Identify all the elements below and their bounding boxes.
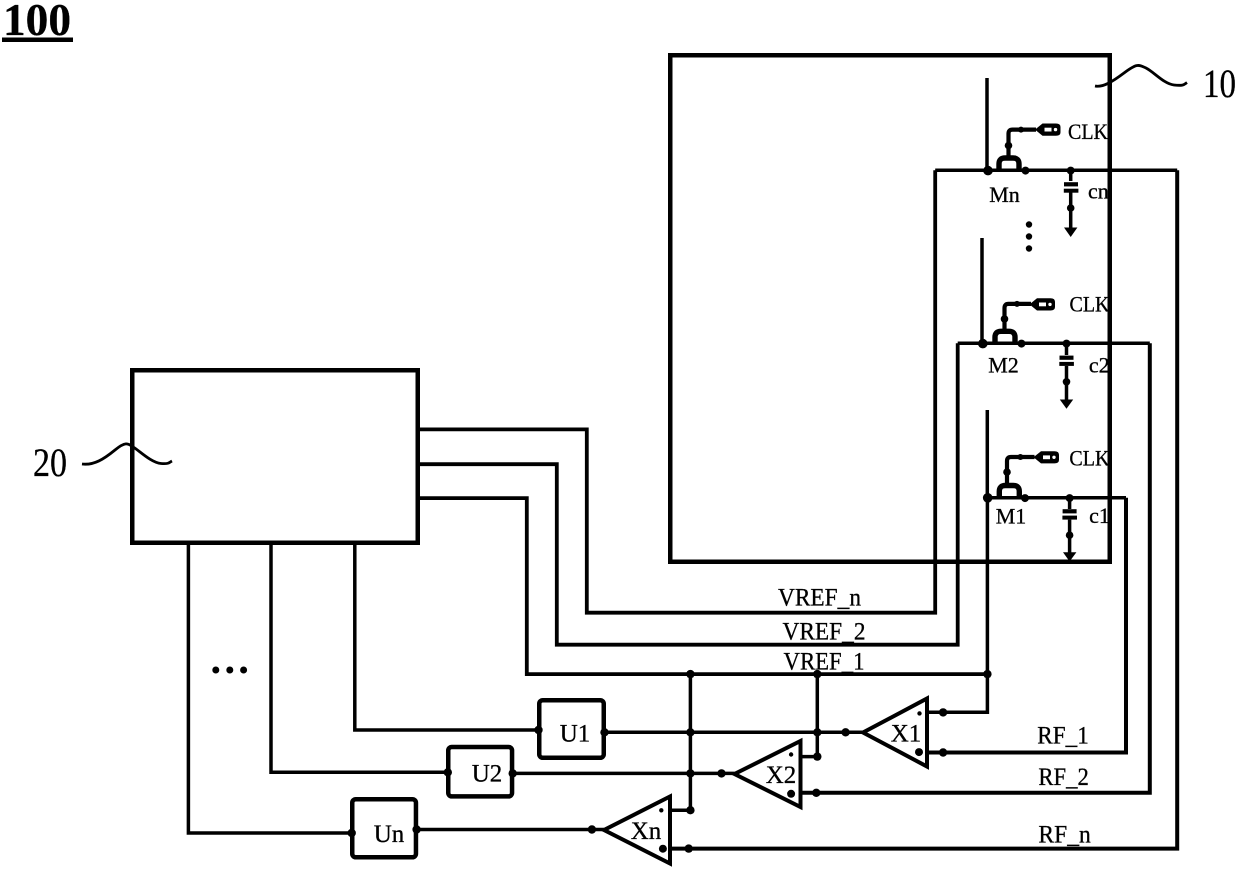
node junction VREF_1 x=690 [686,670,694,678]
svg-text:RF_2: RF_2 [1038,764,1088,791]
cell 1 rail [987,496,1126,500]
wire block20 to Un input [188,545,351,833]
svg-text:CLK: CLK [1070,292,1110,317]
svg-text:VREF_2: VREF_2 [783,618,866,645]
node VREF_1 / M1 left edge junction [983,670,991,678]
buffer U2 [448,747,512,796]
amplifier X1 [863,699,927,767]
node crossing dot x690 on U1-X1 wire [686,728,694,736]
CLK terminal tag (cell n) [1035,124,1061,136]
node junction VREF_1 x=817 [813,670,821,678]
node Un output dot [412,825,420,833]
node crossing dot x817 on U1-X1 wire [813,728,821,736]
svg-text:RF_1: RF_1 [1037,723,1089,750]
node dot left of Xn apex [588,825,596,833]
node U2 input dot [444,768,452,776]
transistor Mn [983,78,1036,207]
amplifier Xn [604,797,670,864]
node corner X2 top input [813,752,821,760]
node X1 bottom input terminal [939,748,947,756]
wire Un output to Xn apex [417,828,604,832]
svg-text:X2: X2 [766,762,797,789]
svg-text:c2: c2 [1089,353,1110,378]
svg-text:U1: U1 [560,721,591,748]
CLK terminal tag (cell 2) [1030,298,1056,310]
svg-text:Mn: Mn [989,182,1020,207]
svg-text:U2: U2 [472,760,503,787]
node X2 bottom input terminal [812,789,820,797]
wire VREF_1 from block 20 to junction (cell 1 left edge) [420,498,987,674]
svg-text:20: 20 [33,440,67,485]
node U1 output dot [600,728,608,736]
wire block20 to U2 input [271,545,447,772]
wire block20 to U1 input [355,545,538,730]
svg-text:VREF_1: VREF_1 [784,649,865,676]
node dot left of X1 apex [841,728,849,736]
buffer U1 [539,700,604,758]
node Xn bottom input terminal [685,844,693,852]
horizontal ellipsis below block 20 [212,667,247,674]
node X1 top input terminal [939,708,947,716]
wire VREF_n from block 20 to block 10 (cell n left edge) [420,170,935,612]
leader squiggle for 10 [1095,65,1187,86]
node U2 output dot [509,769,517,777]
wire RF_2: M2 rect right edge down to X2 bottom input [801,343,1150,793]
amplifier X2 [735,741,801,807]
wire U2 output to X2 apex [513,772,735,776]
svg-text:Xn: Xn [631,818,662,845]
node corner Xn top input [686,806,694,814]
svg-text:10: 10 [1203,61,1236,106]
wire: vertical feed from VREF_1 to X2 top input [801,674,818,757]
vertical ellipsis between cell n and cell 2 [1026,221,1032,251]
wire: vertical feed from VREF_1 to Xn top input [670,674,690,810]
CLK terminal tag (cell 1) [1034,451,1060,463]
figure label 100 [2,0,73,45]
wire U1 output to X1 apex [605,731,864,735]
node Un input dot [348,829,356,837]
svg-text:RF_n: RF_n [1038,822,1091,849]
wire VREF_2 from block 20 to block 10 (cell 2 left edge) [420,343,958,644]
node crossing dot x690 on U2-X2 wire [686,769,694,777]
svg-text:M1: M1 [996,504,1027,529]
svg-text:CLK: CLK [1068,119,1108,144]
node U1 input dot [534,726,542,734]
svg-text:VREF_n: VREF_n [778,585,861,612]
capacitor c1 [1062,494,1109,561]
svg-text:c1: c1 [1089,503,1110,528]
svg-text:CLK: CLK [1069,446,1109,471]
transistor M1 [983,410,1035,529]
cell 2 rail [958,342,1150,346]
svg-text:M2: M2 [988,353,1019,378]
cell n rail [935,169,1177,173]
buffer Un [352,799,416,857]
leader squiggle for 20 [82,444,172,464]
capacitor c2 [1059,340,1109,409]
wire RF_1: M1 rect right edge down to X1 bottom input [927,498,1126,753]
wire RF_n: Mn rect right edge down to Xn bottom input [670,170,1177,848]
transistor M2 [978,238,1031,378]
svg-text:Un: Un [374,821,405,848]
capacitor cn [1064,167,1109,237]
wire: M1 rect left edge, VREF_1 junction down to X1 top input [927,498,987,713]
node dot left of X2 apex [717,769,725,777]
svg-text:X1: X1 [891,721,922,748]
svg-text:cn: cn [1088,179,1109,204]
block 10 [670,55,1110,562]
block 20 [132,370,418,543]
